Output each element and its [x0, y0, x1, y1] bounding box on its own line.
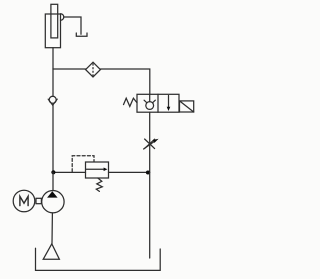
cylinder piston rod — [51, 4, 58, 38]
wire check valve to junction — [52, 105, 54, 172]
wire pump suction — [51, 213, 53, 244]
cylinder body C1 — [45, 14, 60, 48]
valve check position stub — [149, 94, 151, 101]
vent tank — [76, 33, 87, 36]
wire filter to valve — [100, 69, 149, 94]
valve check position ball — [146, 102, 154, 110]
shaft coupling — [36, 198, 41, 203]
check valve seat — [48, 99, 57, 105]
junction node right — [146, 171, 150, 175]
wire vent line — [64, 17, 81, 34]
wire return to tank — [149, 172, 151, 258]
junction node left — [51, 170, 55, 174]
throttle valve arcs — [144, 139, 154, 149]
valve return spring — [124, 98, 138, 106]
valve flow position arrow — [167, 96, 171, 112]
reservoir tank — [36, 248, 161, 270]
valve V1 body — [137, 94, 179, 112]
electric motor M1 — [13, 190, 35, 212]
wire cylinder to tee — [52, 48, 54, 69]
valve check position seat — [144, 100, 155, 103]
wire tee to check valve — [52, 69, 54, 96]
relief valve RV1 body — [86, 162, 109, 178]
wire pump to junction — [52, 172, 54, 190]
throttle adjust arrow — [144, 139, 159, 149]
relief valve spring — [96, 178, 102, 191]
wire junction to relief valve — [53, 171, 86, 173]
pilot line (dashed) — [72, 156, 94, 172]
check valve ball — [49, 96, 56, 103]
wire tee to filter — [53, 68, 86, 70]
relief valve arrow — [86, 168, 107, 172]
pump P1 — [42, 191, 64, 213]
cylinder port boss — [61, 14, 64, 21]
wire relief valve to return — [109, 171, 150, 173]
wire valve to junction — [149, 112, 151, 172]
solenoid — [180, 101, 194, 112]
filter F1 — [86, 62, 101, 77]
suction strainer — [43, 244, 59, 259]
